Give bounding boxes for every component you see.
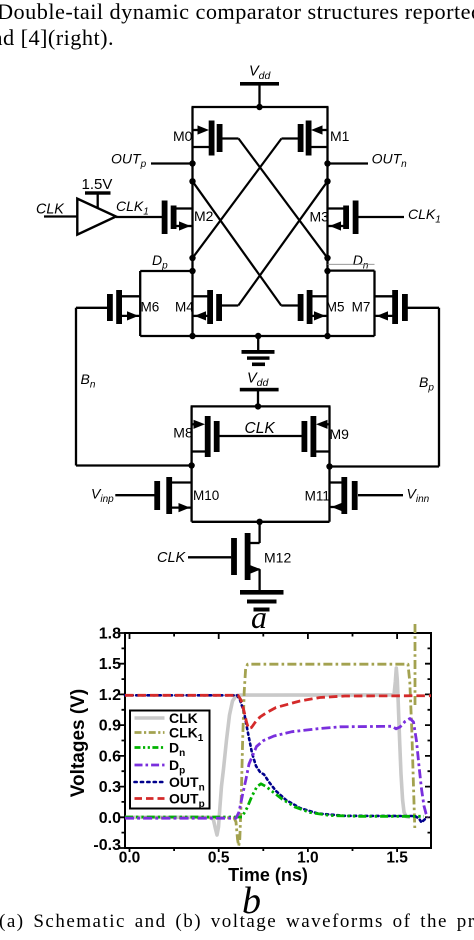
svg-text:OUTn: OUTn bbox=[372, 151, 408, 171]
svg-text:1.5: 1.5 bbox=[99, 656, 121, 673]
svg-text:M4: M4 bbox=[175, 299, 194, 314]
svg-text:M2: M2 bbox=[194, 208, 214, 224]
svg-text:b: b bbox=[242, 880, 261, 922]
svg-text:OUTp: OUTp bbox=[111, 151, 147, 171]
svg-text:CLK: CLK bbox=[157, 550, 187, 566]
svg-text:M10: M10 bbox=[193, 488, 219, 503]
svg-text:M7: M7 bbox=[352, 299, 371, 314]
svg-text:M9: M9 bbox=[330, 426, 350, 442]
svg-text:1.0: 1.0 bbox=[297, 850, 319, 867]
svg-text:Bn: Bn bbox=[81, 371, 96, 391]
svg-text:1.5V: 1.5V bbox=[82, 176, 113, 193]
svg-text:CLK1: CLK1 bbox=[408, 206, 441, 226]
svg-text:M12: M12 bbox=[264, 550, 291, 566]
svg-text:M5: M5 bbox=[326, 299, 345, 314]
svg-text:Dn: Dn bbox=[353, 252, 369, 272]
svg-text:Vdd: Vdd bbox=[247, 371, 270, 390]
svg-text:CLK: CLK bbox=[245, 420, 276, 437]
svg-text:M3: M3 bbox=[310, 209, 330, 225]
svg-text:a: a bbox=[251, 599, 267, 635]
svg-text:1.5: 1.5 bbox=[386, 850, 408, 867]
svg-text:0.0: 0.0 bbox=[99, 810, 121, 827]
svg-text:0.0: 0.0 bbox=[119, 850, 141, 867]
svg-text:M0: M0 bbox=[173, 128, 193, 144]
svg-text:0.5: 0.5 bbox=[208, 850, 230, 867]
svg-text:-0.3: -0.3 bbox=[93, 837, 121, 854]
svg-text:M11: M11 bbox=[305, 489, 330, 504]
svg-text:CLK: CLK bbox=[36, 202, 65, 218]
svg-text:Vinp: Vinp bbox=[91, 486, 114, 506]
svg-text:Bp: Bp bbox=[419, 374, 434, 394]
svg-text:1.8: 1.8 bbox=[99, 626, 121, 643]
svg-text:1.2: 1.2 bbox=[99, 687, 121, 704]
svg-text:CLK1: CLK1 bbox=[116, 198, 149, 218]
svg-text:0.9: 0.9 bbox=[99, 718, 121, 735]
svg-text:Vdd: Vdd bbox=[249, 64, 272, 83]
svg-text:M8: M8 bbox=[173, 425, 193, 441]
svg-text:Dp: Dp bbox=[152, 252, 168, 272]
svg-text:Time (ns): Time (ns) bbox=[228, 865, 308, 885]
svg-text:0.6: 0.6 bbox=[99, 748, 121, 765]
svg-text:M6: M6 bbox=[141, 299, 160, 314]
svg-text:Vinn: Vinn bbox=[407, 486, 430, 506]
svg-text:M1: M1 bbox=[330, 128, 350, 144]
svg-text:Voltages (V): Voltages (V) bbox=[68, 689, 89, 797]
svg-text:0.3: 0.3 bbox=[99, 779, 121, 796]
